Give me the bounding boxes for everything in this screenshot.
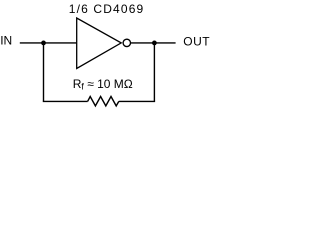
svg-text:OUT: OUT — [183, 35, 210, 49]
node B: output junction dot — [152, 41, 157, 46]
wire: IN terminal to inverter U1 input — [20, 42, 77, 44]
svg-text:IN: IN — [0, 34, 12, 48]
inverter U1 triangle (1/6 CD4069) — [77, 18, 122, 69]
resistor Rf (zigzag body) — [88, 97, 119, 106]
wire: bottom-left feedback segment to resistor Rf — [43, 100, 88, 102]
wire: U1 output bubble to OUT terminal — [131, 42, 176, 44]
inverting output bubble of U1 — [123, 39, 130, 46]
wire: bottom-right feedback segment from resistor Rf — [119, 100, 155, 102]
svg-text:Rf ≈ 10 MΩ: Rf ≈ 10 MΩ — [73, 77, 133, 92]
wire: right feedback vertical segment — [153, 43, 155, 102]
node A: input junction dot — [41, 41, 46, 46]
svg-text:1/6 CD4069: 1/6 CD4069 — [69, 2, 145, 16]
wire: left feedback vertical segment — [43, 43, 45, 102]
